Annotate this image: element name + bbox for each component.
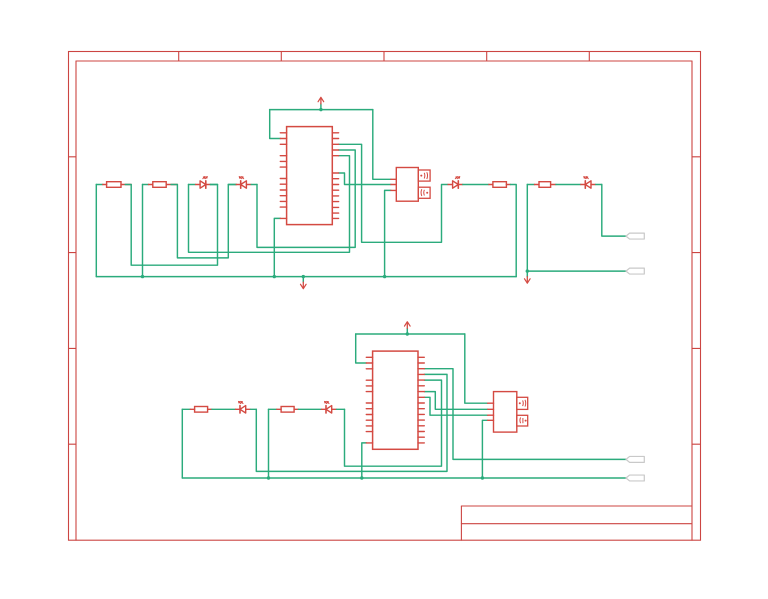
wire U1 pin to J1 pin 2 [339, 173, 391, 185]
wire to R4 [527, 184, 534, 186]
wire net R1 left to ground rail [95, 185, 97, 277]
flag OUT4 [626, 475, 644, 481]
wire to D2 cathode lead [228, 184, 236, 186]
flag OUT2 [626, 268, 644, 274]
LED D2 [236, 177, 251, 189]
wire to D1 anode lead [189, 184, 196, 186]
wire D6 anode lead to loop [337, 408, 345, 410]
wire R6 top left [269, 408, 277, 410]
junction R2-ground [141, 275, 144, 278]
wire R6 left to ground rail [268, 409, 270, 478]
wire U2 bottom-left pin to ground [362, 443, 367, 478]
LED D4 [581, 177, 596, 189]
wire VCC rail top [270, 109, 373, 111]
LED D6 [322, 402, 337, 414]
flag OUT3 [626, 456, 644, 462]
wire D4 anode lead to corner [596, 184, 602, 186]
wire D2 anode lead to loop [251, 184, 257, 186]
wire R2 left to ground rail [142, 185, 144, 277]
wire VCC to J2 pin 1 [465, 334, 488, 403]
IC U2 [366, 351, 424, 449]
LED D3 [448, 177, 463, 189]
connector J2 [488, 392, 528, 433]
junction J1-ground [383, 275, 386, 278]
wire ground rail bottom circuit [182, 477, 626, 479]
wire ground rail right [527, 270, 626, 272]
wire VCC to U2 pin 2 [356, 334, 367, 363]
wire R1 to D1 cathode [125, 185, 217, 266]
wire D6 to U2 pin [345, 380, 442, 466]
wire D4 to flag OUT1 [602, 185, 626, 237]
ground GND arrow top [301, 275, 307, 289]
wire J1 pin 3 to ground rail [385, 190, 391, 276]
wire D1 cathode lead to loop [210, 184, 217, 186]
LED D5 [236, 402, 251, 414]
LED D1 [196, 177, 211, 189]
wire ground rail top circuit [96, 276, 516, 278]
wire R1 top left [96, 184, 103, 186]
wire R2 top left [143, 184, 149, 186]
wire U1 bottom-left pin to ground [274, 218, 280, 276]
wire J2 pin 4 to ground rail [482, 420, 487, 478]
supply VCC arrow top [318, 97, 324, 111]
wire D2 anode to U1 pin [257, 150, 355, 247]
junction U2-ground [360, 476, 363, 479]
wire GND2 junction to R4 [526, 185, 528, 272]
wire R5 top left [182, 408, 190, 410]
flag OUT1 [626, 233, 644, 239]
resistor R6 [277, 407, 299, 413]
wire U2 pin to flag OUT3 [424, 369, 626, 460]
wire D3 to R3 [463, 184, 489, 186]
wire R5 left to ground rail [181, 409, 183, 478]
supply VCC arrow bottom [405, 322, 411, 336]
wire U1 pin to D3 anode [339, 144, 448, 242]
resistor R1 [103, 182, 131, 188]
resistor R2 [149, 182, 178, 188]
resistor R3 [489, 182, 511, 188]
wire D1 anode to U1 pin [189, 156, 350, 253]
wire D5 anode lead to loop [251, 408, 257, 410]
wire VCC to J1 pin 1 [373, 110, 391, 180]
IC U1 [280, 127, 338, 225]
resistor R5 [190, 407, 212, 413]
wire R4 to D4 [556, 184, 581, 186]
junction J2-ground [481, 476, 484, 479]
resistor R4 [535, 182, 556, 188]
wire R6 to D6 [298, 408, 321, 410]
wire VCC to U1 pin 2 [270, 110, 281, 139]
wire D5 to U2 pin [256, 374, 447, 471]
junction R6-ground [267, 476, 270, 479]
junction U1-ground [273, 275, 276, 278]
wire U2 pin to J2 pin 3 [424, 397, 487, 415]
wire R2 to D2 cathode [171, 185, 236, 258]
wire R5 to D5 [212, 408, 236, 410]
wire VCC rail bottom [356, 333, 465, 335]
wire U2 pin to J2 pin 2 [424, 392, 487, 410]
ground GND arrow right [525, 269, 531, 283]
connector J1 [391, 168, 430, 202]
wire R3 to ground rail [510, 185, 516, 277]
